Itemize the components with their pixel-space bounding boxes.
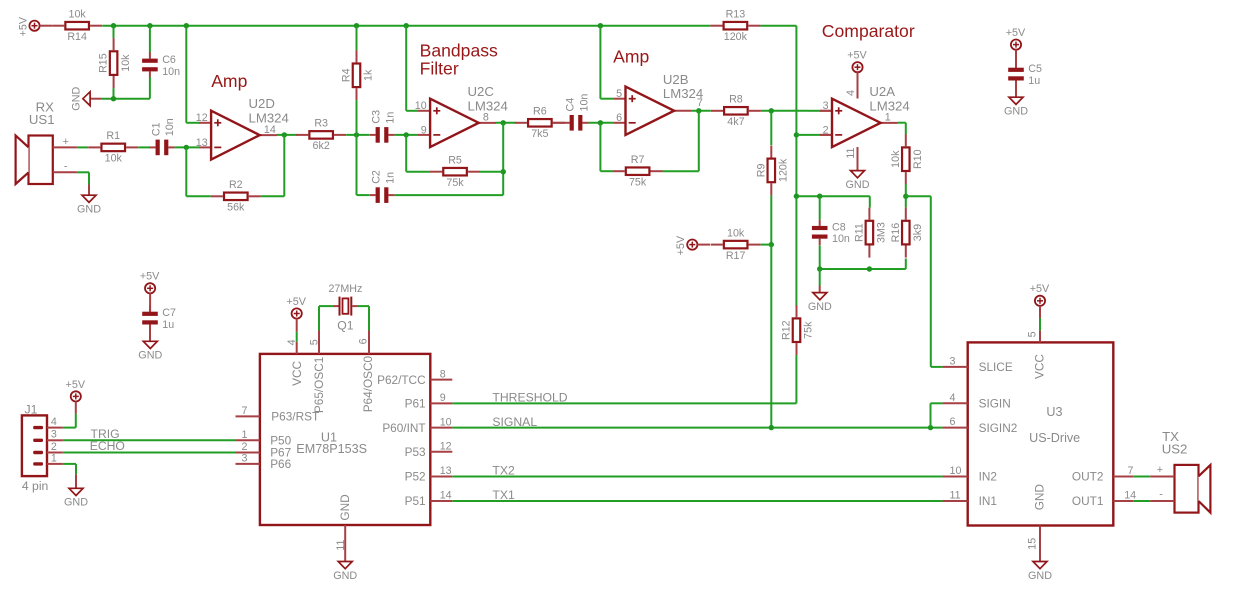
label U3 refdes xyxy=(1029,405,1080,445)
svg-text:P66: P66 xyxy=(270,457,291,471)
op-amp U2B xyxy=(613,72,703,135)
pin U1 pin12 P53 xyxy=(405,440,453,459)
svg-text:GND: GND xyxy=(77,204,101,216)
svg-text:6: 6 xyxy=(357,338,369,344)
svg-text:75k: 75k xyxy=(803,321,815,339)
pin U3 pin11 IN1 xyxy=(943,490,997,509)
svg-text:IN2: IN2 xyxy=(979,470,997,484)
svg-text:SIGIN: SIGIN xyxy=(979,397,1011,411)
junction threshold / U2A pin2 xyxy=(794,132,799,137)
junction R10/R16/slice xyxy=(903,194,908,199)
pin U1 pin8 P62/TCC xyxy=(377,368,452,387)
svg-text:Bandpass: Bandpass xyxy=(420,40,498,60)
svg-text:9: 9 xyxy=(440,392,446,404)
svg-text:7k5: 7k5 xyxy=(531,128,548,140)
svg-text:R12: R12 xyxy=(781,320,793,340)
svg-text:1: 1 xyxy=(241,429,247,441)
wire R7 feedback left vertical xyxy=(599,123,601,171)
svg-text:10n: 10n xyxy=(578,94,590,112)
+5V at C5 xyxy=(1006,27,1026,50)
resistor R5 xyxy=(430,155,480,190)
wire +5V to U1 pin4 xyxy=(296,332,298,342)
svg-text:U2D: U2D xyxy=(249,96,275,111)
svg-text:56k: 56k xyxy=(227,202,245,214)
ground at U1 xyxy=(333,562,357,582)
wire Q1 right xyxy=(358,305,369,307)
svg-text:10n: 10n xyxy=(832,233,850,245)
svg-text:THRESHOLD: THRESHOLD xyxy=(492,391,567,405)
svg-text:15: 15 xyxy=(1026,538,1038,550)
svg-text:Comparator: Comparator xyxy=(822,21,915,41)
ground at C7 xyxy=(138,341,162,361)
svg-text:R2: R2 xyxy=(229,179,243,191)
svg-text:C4: C4 xyxy=(564,98,576,112)
ground at C5 xyxy=(1004,97,1028,117)
svg-text:US-Drive: US-Drive xyxy=(1029,431,1080,445)
svg-text:3: 3 xyxy=(823,100,829,112)
pin C7 to gnd xyxy=(149,330,151,341)
svg-text:R8: R8 xyxy=(729,94,743,106)
svg-text:+5V: +5V xyxy=(17,16,29,36)
svg-text:3: 3 xyxy=(51,429,57,441)
wire R17 to node xyxy=(761,244,772,246)
IC U1 EM78P153S xyxy=(260,354,430,525)
wire C8 bottom xyxy=(819,245,821,269)
wire R15 to GND row xyxy=(113,88,115,99)
svg-text:10k: 10k xyxy=(69,9,87,21)
svg-text:12: 12 xyxy=(440,440,452,452)
svg-text:3k9: 3k9 xyxy=(912,224,924,241)
junction U2B out xyxy=(696,108,701,113)
wire R5 feedback left vertical xyxy=(405,135,407,172)
svg-text:11: 11 xyxy=(950,490,961,502)
svg-text:P61: P61 xyxy=(405,397,426,411)
svg-text:14: 14 xyxy=(264,124,276,136)
wire rail to R15 xyxy=(113,26,115,39)
pin U3 pin7 OUT2 xyxy=(1072,465,1134,484)
svg-text:+5V: +5V xyxy=(847,50,867,62)
svg-text:P53: P53 xyxy=(405,445,426,459)
resistor R11 xyxy=(854,208,888,258)
capacitor C5 xyxy=(1008,61,1042,87)
svg-text:10k: 10k xyxy=(727,227,745,239)
ground at J1 xyxy=(64,488,88,508)
svg-text:3M3: 3M3 xyxy=(876,222,888,243)
svg-text:1k: 1k xyxy=(363,69,375,81)
pin U1 pin10 P60/INT xyxy=(382,416,452,435)
junction SIGNAL/R9 xyxy=(769,425,774,430)
svg-text:R15: R15 xyxy=(98,53,110,73)
wire Q1 left xyxy=(319,305,333,307)
svg-text:R1: R1 xyxy=(106,130,120,142)
svg-text:R14: R14 xyxy=(67,31,87,43)
svg-text:5: 5 xyxy=(616,88,622,100)
wire gnd row C8/R11/R16 xyxy=(820,268,906,270)
svg-text:R7: R7 xyxy=(631,154,645,166)
wire Q1 right drop xyxy=(368,306,370,330)
junction rail R4 xyxy=(354,23,359,28)
pin U1 pin7 RST xyxy=(236,405,260,417)
pin +5V to C7 xyxy=(149,293,151,312)
wire R2 row left xyxy=(186,195,211,197)
wire rail to U2B+ vertical xyxy=(599,26,601,99)
pin U1 pin6 OSC0 xyxy=(357,331,369,354)
pin U1 pin2 P67 xyxy=(236,441,260,453)
junction C8 top xyxy=(817,194,822,199)
junction U2B- node xyxy=(598,120,603,125)
svg-text:10: 10 xyxy=(415,100,427,112)
capacitor C6 xyxy=(142,52,180,78)
pin U1 pin11 GND xyxy=(335,525,347,562)
svg-text:4: 4 xyxy=(51,416,57,428)
svg-text:SLICE: SLICE xyxy=(979,360,1013,374)
svg-text:5: 5 xyxy=(1026,331,1038,337)
pin U3 pin14 OUT1 xyxy=(1072,490,1136,509)
svg-text:5: 5 xyxy=(309,339,321,345)
wire R7 feedback right vertical xyxy=(698,111,700,171)
svg-text:US1: US1 xyxy=(29,112,55,127)
pin U1 pin3 P66 xyxy=(236,452,260,464)
svg-text:P51: P51 xyxy=(405,494,426,508)
wire rail to R13 right xyxy=(760,25,796,27)
svg-text:GND: GND xyxy=(64,497,88,509)
svg-text:11: 11 xyxy=(845,147,857,158)
wire ECHO xyxy=(63,452,236,454)
wire J1 pin1 drop xyxy=(75,464,77,474)
svg-text:P65/OSC1: P65/OSC1 xyxy=(312,357,326,413)
resistor R13 xyxy=(710,9,760,44)
ground at U2A xyxy=(846,171,870,191)
wire U2A out corner xyxy=(898,122,906,124)
junction SIGNAL/SIGIN branch xyxy=(928,425,933,430)
svg-text:C7: C7 xyxy=(162,307,176,319)
svg-text:1n: 1n xyxy=(384,112,396,124)
wire threshold node down to R12 xyxy=(795,196,797,306)
wire R5 row right xyxy=(480,171,503,173)
svg-text:P60/INT: P60/INT xyxy=(382,421,425,435)
resistor R7 xyxy=(613,154,663,189)
ground below C8 xyxy=(808,293,832,313)
wire +5V to R14 xyxy=(40,25,53,27)
svg-text:+: + xyxy=(1157,464,1163,476)
wire to U2C pin10 xyxy=(406,110,418,112)
wire U2C out xyxy=(496,122,516,124)
wire R1 to C1 xyxy=(138,146,150,148)
wire VREF rail xyxy=(102,25,710,27)
capacitor C4 xyxy=(563,94,590,131)
junction R15 GND row xyxy=(111,96,116,101)
wire R4 to node xyxy=(356,100,358,135)
wire C3 to U2C- xyxy=(395,134,418,136)
wire OUT1 to US2- xyxy=(1133,500,1150,502)
wire R2 row right xyxy=(261,195,285,197)
label U1 refdes xyxy=(296,430,367,456)
svg-text:10: 10 xyxy=(950,465,962,477)
svg-text:Amp: Amp xyxy=(211,71,247,91)
resistor R12 xyxy=(781,305,815,355)
pin U1 pin13 P52 xyxy=(405,465,453,484)
op-amp U2A xyxy=(820,84,910,147)
wire R11 drop xyxy=(869,196,871,207)
svg-text:+5V: +5V xyxy=(140,271,160,283)
svg-text:GND: GND xyxy=(71,87,83,111)
+5V at C7 xyxy=(140,271,160,294)
svg-text:6: 6 xyxy=(950,416,956,428)
wire J1 pin1 corner xyxy=(63,463,76,465)
svg-text:ECHO: ECHO xyxy=(90,439,125,453)
wire U2B out xyxy=(691,110,711,112)
wire to U2B pin5 xyxy=(600,98,613,100)
wire U2D out xyxy=(277,134,297,136)
wire TRIG xyxy=(63,439,236,441)
junction U2D out xyxy=(282,132,287,137)
svg-text:GND: GND xyxy=(333,570,357,582)
svg-text:10k: 10k xyxy=(890,150,902,168)
svg-text:1u: 1u xyxy=(162,319,174,331)
svg-text:SIGNAL: SIGNAL xyxy=(492,415,537,429)
svg-text:27MHz: 27MHz xyxy=(328,283,362,295)
svg-text:C1: C1 xyxy=(150,122,162,136)
wire R3 to C3 node xyxy=(346,134,369,136)
+5V at U1 xyxy=(286,296,306,319)
junction rail C6 xyxy=(147,23,152,28)
junction R4 bottom xyxy=(354,132,359,137)
junction rail U2C+ branch xyxy=(404,23,409,28)
svg-text:EM78P153S: EM78P153S xyxy=(296,442,367,456)
svg-text:-: - xyxy=(1159,489,1163,501)
wire rail to C6 xyxy=(149,26,151,53)
svg-text:GND: GND xyxy=(1004,106,1028,118)
svg-text:75k: 75k xyxy=(629,177,647,189)
svg-text:14: 14 xyxy=(1124,490,1136,502)
pin U1 pin1 P50 xyxy=(236,429,260,441)
pin U1 pin4 VCC xyxy=(286,339,298,354)
svg-text:P62/TCC: P62/TCC xyxy=(377,373,426,387)
svg-text:R9: R9 xyxy=(755,164,767,178)
svg-text:10k: 10k xyxy=(105,153,123,165)
svg-text:1: 1 xyxy=(51,452,57,464)
resistor R10 xyxy=(890,134,924,184)
wire +5V to U3 pin5 xyxy=(1039,318,1041,331)
junction rail U2D+ branch xyxy=(184,23,189,28)
+5V at U2A xyxy=(847,50,867,73)
resistor R8 xyxy=(711,94,761,129)
svg-text:120k: 120k xyxy=(778,158,790,182)
pin U3 pin6 SIGIN2 xyxy=(943,416,1018,435)
wire J1 pin4 to +5V corner xyxy=(63,427,76,429)
svg-text:75k: 75k xyxy=(446,177,464,189)
capacitor C1 xyxy=(149,118,176,155)
capacitor C8 xyxy=(812,220,850,246)
pin U2A pin4 VCC xyxy=(857,72,859,98)
wire C2 left xyxy=(357,194,370,196)
resistor R17 xyxy=(711,227,761,262)
wire R9 down xyxy=(770,195,772,244)
svg-text:6k2: 6k2 xyxy=(313,140,330,152)
pin U2A pin11 GND xyxy=(857,147,859,171)
svg-text:OUT2: OUT2 xyxy=(1072,470,1103,484)
pin U3 pin10 IN2 xyxy=(943,465,997,484)
wire C4 to U2B- xyxy=(589,122,614,124)
wire US1- down xyxy=(77,171,89,173)
+5V at U3 xyxy=(1030,283,1050,306)
wire GND stub xyxy=(90,98,102,100)
wire TX1 xyxy=(452,500,942,502)
svg-text:10: 10 xyxy=(440,416,452,428)
wire C1 to node A xyxy=(175,146,199,148)
pin +5V stub U1 xyxy=(296,319,298,332)
pin U3 pin4 SIGIN xyxy=(943,392,1011,411)
pin U1 pin5 OSC1 xyxy=(309,331,321,354)
svg-text:U2C: U2C xyxy=(468,84,495,99)
svg-text:2: 2 xyxy=(241,441,247,453)
svg-text:R16: R16 xyxy=(890,223,902,243)
svg-text:GND: GND xyxy=(846,179,870,191)
+5V at J1 xyxy=(66,379,86,402)
svg-text:3: 3 xyxy=(241,452,247,464)
junction R5 right xyxy=(501,169,506,174)
resistor R16 xyxy=(890,208,924,258)
svg-text:10k: 10k xyxy=(120,54,132,72)
ground at US1 xyxy=(77,195,101,215)
pin +5V to C5 xyxy=(1015,50,1017,68)
pin U1 pin14 P51 xyxy=(405,490,453,509)
wire R9 node down to SIGNAL xyxy=(770,245,772,428)
svg-text:R5: R5 xyxy=(448,155,462,167)
svg-text:13: 13 xyxy=(440,465,452,477)
svg-text:4: 4 xyxy=(950,392,956,404)
svg-text:GND: GND xyxy=(1033,484,1047,510)
svg-text:IN1: IN1 xyxy=(979,494,997,508)
svg-text:10n: 10n xyxy=(162,66,180,78)
pin U3 pin5 VCC xyxy=(1026,331,1040,343)
wire US1- vertical xyxy=(88,172,90,184)
resistor R9 xyxy=(755,145,789,195)
svg-text:R11: R11 xyxy=(854,223,866,242)
wire slice vertical xyxy=(930,196,932,367)
svg-text:4k7: 4k7 xyxy=(727,116,744,128)
svg-text:J1: J1 xyxy=(25,402,38,416)
wire SIGIN branch vertical xyxy=(930,403,932,427)
svg-text:+5V: +5V xyxy=(286,296,306,308)
junction R9/R17 xyxy=(769,242,774,247)
svg-text:2: 2 xyxy=(51,441,57,453)
wire R5 row left xyxy=(406,171,430,173)
svg-text:R13: R13 xyxy=(726,9,746,21)
node A junction C1/U2D-/R2 xyxy=(184,145,189,150)
resistor R1 xyxy=(88,130,138,165)
svg-text:2: 2 xyxy=(823,124,829,136)
svg-text:9: 9 xyxy=(421,124,427,136)
svg-text:C2: C2 xyxy=(370,170,382,184)
wire SIGIN branch to pin4 xyxy=(931,402,943,404)
wire THRESHOLD xyxy=(452,402,796,404)
svg-text:C6: C6 xyxy=(162,54,176,66)
svg-text:C8: C8 xyxy=(832,221,846,233)
svg-text:4 pin: 4 pin xyxy=(22,479,48,493)
pin U2A pin3 stub xyxy=(808,110,821,112)
svg-text:13: 13 xyxy=(196,137,208,149)
svg-text:U3: U3 xyxy=(1046,405,1062,419)
wire C2 up to R5 node xyxy=(502,172,504,195)
junction R11 bottom xyxy=(867,266,872,271)
wire rail to R4 xyxy=(356,26,358,51)
svg-text:TX1: TX1 xyxy=(492,488,515,502)
op-amp U2D xyxy=(196,96,289,160)
svg-text:R4: R4 xyxy=(341,68,353,82)
resistor R2 xyxy=(211,179,261,214)
pin gnd stub xyxy=(75,474,77,488)
junction R8/R9 xyxy=(769,108,774,113)
svg-text:R6: R6 xyxy=(533,106,547,118)
svg-text:GND: GND xyxy=(338,494,352,520)
junction threshold row left xyxy=(794,194,799,199)
wire R6 to C4 xyxy=(553,122,564,124)
IC U3 US-Drive xyxy=(968,342,1114,525)
svg-text:C5: C5 xyxy=(1028,63,1042,75)
svg-text:U2A: U2A xyxy=(869,84,895,99)
svg-text:7: 7 xyxy=(1128,465,1134,477)
svg-text:C3: C3 xyxy=(370,110,382,124)
wire GND row xyxy=(102,98,150,100)
wire R16 bottom corner xyxy=(905,259,907,270)
svg-text:11: 11 xyxy=(335,539,347,550)
svg-text:P63/RST: P63/RST xyxy=(271,410,319,424)
svg-text:7: 7 xyxy=(241,405,247,417)
junction C8 bottom xyxy=(817,266,822,271)
wire OUT2 to US2+ xyxy=(1133,476,1150,478)
transducer US1 (RX) xyxy=(16,100,77,184)
capacitor C2 xyxy=(369,170,396,203)
capacitor C7 xyxy=(142,305,176,331)
svg-text:Amp: Amp xyxy=(613,47,649,67)
svg-text:6: 6 xyxy=(616,112,622,124)
svg-text:+5V: +5V xyxy=(1030,283,1050,295)
svg-text:1n: 1n xyxy=(384,172,396,184)
pin U2A pin2 stub xyxy=(821,134,832,136)
svg-text:12: 12 xyxy=(196,112,208,124)
capacitor C3 xyxy=(369,110,396,143)
wire rail to U2C+ vertical xyxy=(405,26,407,111)
connector J1 xyxy=(22,402,63,493)
crystal Q1 27MHz xyxy=(328,283,362,332)
wire C2 right xyxy=(395,194,504,196)
wire U2C out down to R5 xyxy=(502,123,504,172)
wire R12 down xyxy=(795,355,797,403)
wire rail to U2D+ vertical xyxy=(185,26,187,123)
wire slice to U3 pin3 xyxy=(931,366,943,368)
wire slice row xyxy=(906,195,931,197)
wire to U2D pin12 xyxy=(186,122,199,124)
wire +5V to R17 xyxy=(697,244,710,246)
wire C6 to GND row xyxy=(149,77,151,99)
junction U2C out xyxy=(501,120,506,125)
wire US1+ to R1 xyxy=(77,146,88,148)
wire SIGNAL xyxy=(452,427,942,429)
svg-text:4: 4 xyxy=(845,90,857,96)
resistor R6 xyxy=(515,106,565,141)
wire C8 drop xyxy=(819,196,821,219)
svg-text:1: 1 xyxy=(885,112,891,124)
op-amp U2C xyxy=(415,84,508,147)
wire threshold row xyxy=(796,195,869,197)
svg-text:SIGIN2: SIGIN2 xyxy=(979,421,1018,435)
svg-text:R3: R3 xyxy=(314,118,328,130)
svg-text:GND: GND xyxy=(808,301,832,313)
resistor R4 xyxy=(341,50,375,100)
wire R16 top xyxy=(905,196,907,207)
svg-text:+5V: +5V xyxy=(1006,27,1026,39)
